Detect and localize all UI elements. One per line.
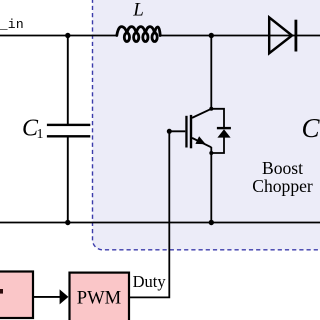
- gate bar: [185, 116, 187, 148]
- wire antiparallel diode branch top: [211, 109, 224, 127]
- node dot gate: [167, 129, 172, 134]
- emitter lead: [192, 138, 211, 147]
- node dot bottom left junction: [65, 220, 70, 225]
- emitter arrow: [195, 136, 205, 144]
- svg-text:L: L: [132, 0, 144, 21]
- svg-text:v_in: v_in: [0, 17, 24, 32]
- svg-text:C: C: [302, 113, 320, 143]
- diode D1 output: [269, 17, 297, 53]
- transistor Q1 IGBT: [169, 109, 211, 149]
- PWM block: [70, 273, 130, 320]
- wire center branch emitter to rail: [210, 147, 212, 223]
- node dot emitter: [209, 151, 213, 155]
- gate lead: [169, 130, 185, 132]
- wire controller to PWM arrow: [33, 296, 61, 298]
- inductor L: [117, 27, 160, 42]
- node dot input junction: [65, 33, 70, 38]
- svg-text:1: 1: [37, 127, 44, 142]
- svg-text:Chopper: Chopper: [252, 176, 313, 196]
- wire antiparallel diode branch bottom: [211, 138, 224, 154]
- controller block text fragment: [0, 289, 3, 294]
- wire bottom rail: [0, 222, 320, 224]
- diode D2 antiparallel: [217, 127, 231, 138]
- wire center branch collector: [210, 36, 212, 109]
- node dot collector: [209, 107, 213, 111]
- controller block (partial): [0, 272, 33, 319]
- wire left branch lower: [67, 136, 69, 223]
- svg-text:Duty: Duty: [133, 272, 167, 291]
- wire duty vertical: [129, 131, 169, 297]
- wire top rail: [0, 35, 117, 37]
- wire left branch upper: [67, 36, 69, 125]
- body bar: [190, 115, 192, 148]
- boost chopper dashed region box: [93, 0, 320, 250]
- capacitor C1: [47, 124, 90, 138]
- svg-text:PWM: PWM: [77, 288, 121, 309]
- node dot bottom center junction: [209, 220, 214, 225]
- arrowhead into PWM: [60, 289, 69, 304]
- wire top rail right of inductor: [160, 35, 320, 37]
- svg-text:Boost: Boost: [262, 158, 303, 178]
- collector lead: [192, 109, 211, 118]
- node dot top center junction: [209, 33, 214, 38]
